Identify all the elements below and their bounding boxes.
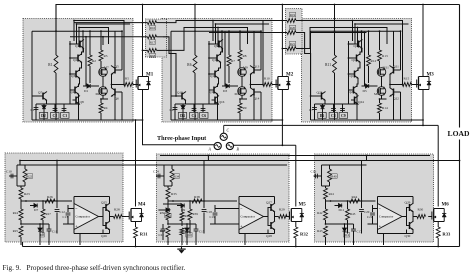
wire: [193, 104, 195, 112]
wire: [158, 209, 166, 211]
signal bus wire dropping to gate node: [353, 21, 403, 85]
collector rail wire: [195, 30, 261, 32]
gate resistor R10: [263, 83, 272, 87]
phase-B tap junction: [282, 20, 284, 22]
svg-text:R32: R32: [300, 232, 309, 237]
junction: [366, 155, 368, 157]
junction: [348, 57, 350, 59]
wire: [379, 99, 381, 103]
wire: [219, 62, 221, 71]
wire: [167, 186, 169, 188]
svg-text:Q28: Q28: [266, 234, 272, 238]
svg-text:C14: C14: [153, 170, 159, 174]
comparator return wire: [239, 233, 275, 235]
wire: [379, 61, 381, 68]
junction: [208, 155, 210, 157]
wire: [56, 201, 58, 208]
wire: [36, 103, 44, 105]
wire: [181, 235, 183, 245]
wire: [70, 57, 75, 59]
svg-text:R14: R14: [382, 106, 388, 110]
wire: [209, 73, 212, 75]
resistor R14: [378, 103, 382, 113]
wire: [241, 76, 243, 87]
comparator U2: [239, 204, 264, 230]
junction: [39, 223, 41, 225]
transistor Q19: [351, 70, 359, 79]
svg-text:R22: R22: [27, 174, 33, 178]
svg-text:R31: R31: [140, 232, 149, 237]
junction: [282, 119, 284, 121]
ground: [177, 247, 185, 254]
capacitor C3: [62, 109, 67, 111]
svg-text:R44: R44: [352, 195, 358, 199]
svg-text:R24: R24: [13, 211, 19, 215]
junction: [334, 30, 336, 32]
resistor R42: [324, 209, 328, 220]
junction: [42, 200, 44, 202]
wire: [89, 31, 91, 55]
wire: [135, 222, 137, 228]
gate resistor R15: [403, 83, 412, 87]
wire: [267, 208, 269, 226]
wire: [82, 48, 84, 55]
driver block 1 (phase A) dashed box: [23, 19, 133, 123]
wire: [157, 36, 164, 38]
bus junction: [194, 4, 196, 6]
wire: [118, 91, 122, 93]
input RC network: [322, 165, 330, 186]
wire: [80, 62, 82, 71]
wire: [157, 49, 164, 51]
diode D11: [339, 204, 342, 208]
transistor Q12: [211, 86, 219, 95]
capacitor C4: [173, 108, 178, 110]
signal drop wire: [361, 31, 363, 52]
junction: [354, 23, 356, 25]
resistor R37: [166, 226, 170, 237]
wire: [437, 222, 439, 228]
junction: [20, 223, 22, 225]
wire: [32, 30, 56, 32]
wire: [102, 95, 104, 99]
wire: [162, 231, 164, 240]
resistor R32: [294, 227, 298, 238]
junction: [208, 73, 210, 75]
svg-text:M4: M4: [138, 203, 146, 208]
label D6: [318, 113, 326, 119]
svg-text:D4: D4: [180, 114, 185, 118]
signal drop wire: [217, 28, 219, 48]
wire: [402, 216, 407, 218]
wire: [19, 161, 21, 166]
wire: [100, 61, 102, 68]
wire: [185, 100, 187, 104]
junction: [217, 27, 219, 29]
comparator block 3 dashed box: [315, 154, 434, 242]
wire: [343, 103, 358, 105]
wire: [333, 104, 335, 112]
power MOSFET M6: [428, 209, 446, 222]
svg-text:C12: C12: [60, 210, 66, 214]
wire: [342, 104, 344, 112]
wire: [102, 37, 104, 45]
tap wire to diode row: [224, 33, 226, 87]
svg-text:C15: C15: [199, 230, 205, 234]
wire: [372, 205, 374, 212]
wire: [189, 201, 191, 209]
wire: [135, 238, 137, 247]
wire: [381, 95, 383, 99]
wire: [325, 186, 327, 188]
wire: [70, 43, 77, 45]
diode D12: [343, 228, 347, 231]
transistor Q7: [40, 92, 48, 101]
capacitor C10: [11, 174, 13, 179]
svg-text:D2: D2: [41, 114, 46, 118]
wire: [63, 104, 65, 112]
transistor Q16: [212, 96, 220, 105]
junction: [69, 57, 71, 59]
junction: [172, 200, 174, 202]
wire: [322, 104, 324, 120]
output wire: [390, 74, 403, 85]
wire: [377, 197, 379, 204]
wire: [412, 197, 414, 204]
wire: [174, 104, 176, 120]
mosfet M9: [238, 68, 247, 77]
negative output rail wire: [23, 242, 460, 247]
junction: [361, 30, 363, 32]
svg-text:Comparator: Comparator: [379, 215, 393, 219]
wire: [101, 98, 108, 100]
output node wire: [110, 212, 114, 217]
wire: [326, 200, 376, 202]
gate resistor R30: [417, 215, 426, 219]
signal drop wire: [212, 21, 214, 42]
signal bus wire dropping to gate node: [213, 21, 263, 85]
junction: [73, 20, 75, 22]
svg-text:R7: R7: [231, 59, 235, 63]
wire: [217, 94, 219, 120]
wire: [330, 164, 367, 166]
transistor Q22: [390, 88, 398, 97]
comparator supply wire: [239, 196, 275, 198]
branch to low-side M4: [135, 120, 137, 207]
wire: [25, 164, 62, 166]
label R20: [289, 25, 295, 30]
svg-text:R23: R23: [24, 192, 30, 196]
wire: [63, 223, 74, 225]
resistor R34: [170, 169, 174, 182]
label R16: [149, 26, 155, 31]
junction: [212, 20, 214, 22]
svg-text:C20: C20: [364, 210, 370, 214]
output node wire: [275, 212, 279, 217]
svg-text:R39: R39: [193, 212, 199, 216]
resistor R36: [166, 209, 170, 220]
wire: [20, 199, 22, 201]
wire: [100, 31, 102, 50]
output node wire: [413, 212, 417, 217]
signal bus wire: [355, 23, 409, 25]
transistor Q8: [73, 96, 81, 105]
wire: [377, 230, 379, 234]
bus junction: [422, 4, 424, 6]
supply drop wire: [361, 161, 363, 202]
rail junction: [295, 246, 297, 248]
transistor Q1: [77, 40, 85, 49]
junction: [56, 200, 58, 202]
junction: [25, 200, 27, 202]
wire: [241, 95, 243, 99]
wire: [389, 85, 391, 89]
junction: [55, 30, 57, 32]
label R19: [289, 12, 295, 16]
resistor R46: [180, 212, 184, 221]
svg-text:C17: C17: [357, 230, 363, 234]
wire: [143, 36, 148, 38]
signal wire to block 1: [74, 22, 143, 24]
label D4: [178, 113, 186, 119]
label C3: [61, 113, 69, 119]
wire: [171, 30, 195, 32]
wire: [368, 66, 370, 83]
svg-text:M9: M9: [243, 66, 248, 70]
wire: [214, 205, 216, 212]
AC source phase A: [214, 142, 221, 149]
wire: [42, 201, 44, 209]
junction: [203, 200, 205, 202]
wire: [238, 230, 240, 234]
diode D10: [185, 228, 189, 231]
positive output bus wire: [56, 5, 460, 32]
wire: [325, 237, 327, 245]
svg-text:R38: R38: [194, 195, 200, 199]
resistor R3: [99, 50, 103, 61]
transistor Q25: [103, 203, 111, 212]
wire: [379, 31, 381, 50]
gate resistor R29: [279, 215, 288, 219]
bottom signal bus wire: [20, 160, 460, 162]
junction: [76, 23, 78, 25]
wire: [21, 200, 72, 202]
wire: [383, 234, 385, 246]
wire: [214, 216, 216, 224]
svg-text:C9: C9: [341, 114, 346, 118]
capacitor C15: [194, 229, 199, 231]
capacitor C8: [331, 109, 336, 111]
signal drop wire: [82, 31, 84, 52]
wire: [326, 223, 354, 225]
signal drop wire: [352, 21, 354, 42]
wire: [121, 92, 123, 120]
junction: [379, 98, 381, 100]
gate wire M3: [412, 84, 419, 86]
svg-text:Q26: Q26: [101, 234, 107, 238]
wire: [175, 103, 183, 105]
wire: [325, 220, 327, 224]
wire: [209, 43, 216, 45]
feed wire from top bus into block 2: [194, 5, 196, 56]
wire: [209, 89, 211, 91]
junction: [121, 30, 123, 32]
wire: [70, 89, 72, 91]
wire: [194, 73, 196, 120]
junction: [239, 32, 241, 34]
wire: [20, 237, 22, 245]
svg-text:C5: C5: [191, 114, 196, 118]
wire: [368, 31, 370, 55]
wire: [379, 113, 381, 120]
wire: [118, 69, 122, 71]
wire: [114, 95, 116, 120]
wire: [186, 231, 188, 245]
wire: [209, 57, 214, 59]
wire: [437, 238, 439, 247]
wire: [186, 224, 188, 228]
svg-text:Fig. 9. Proposed three-phase: Fig. 9. Proposed three-phase self-driven…: [3, 264, 186, 272]
svg-text:Q2: Q2: [73, 58, 77, 62]
wire: [143, 22, 148, 24]
wire: [222, 85, 226, 87]
label R21: [289, 41, 295, 46]
resistor R43: [324, 226, 328, 237]
diode D2: [42, 106, 46, 109]
diode D3: [226, 84, 229, 88]
svg-text:C7: C7: [309, 108, 313, 112]
wire: [311, 95, 319, 97]
mosfet M8: [99, 87, 108, 96]
wire: [46, 100, 48, 104]
wire: [143, 49, 148, 51]
junction: [85, 36, 87, 38]
svg-text:Q1: Q1: [75, 44, 79, 48]
wire: [344, 224, 346, 228]
gate resistor R5: [124, 83, 133, 87]
wire: [195, 224, 197, 229]
resistor R19: [287, 19, 296, 23]
wire: [400, 92, 402, 120]
wire: [349, 43, 356, 45]
label R22: [26, 174, 32, 179]
wire: [111, 85, 113, 89]
wire: [253, 95, 255, 120]
comparator supply wire: [74, 196, 110, 198]
wire: [48, 231, 50, 245]
wire: [83, 85, 87, 87]
svg-text:R47: R47: [185, 230, 191, 234]
resistor R21: [287, 47, 296, 51]
label C8: [329, 113, 337, 119]
output wire: [251, 74, 264, 85]
junction: [344, 223, 346, 225]
svg-text:Q18: Q18: [352, 58, 358, 62]
wire: [218, 78, 219, 87]
svg-text:C16: C16: [311, 170, 317, 174]
capacitor C11: [47, 229, 52, 231]
svg-text:R21: R21: [290, 42, 296, 46]
wire: [349, 73, 352, 75]
input RC network: [17, 165, 25, 186]
svg-text:R13: R13: [382, 54, 388, 58]
label R40: [331, 174, 337, 179]
wire: [115, 119, 143, 121]
label D8: [40, 233, 45, 238]
wire: [202, 104, 204, 112]
gate wire M2: [272, 84, 278, 86]
wire: [239, 33, 241, 42]
junction: [215, 23, 217, 25]
wire: [406, 230, 408, 234]
junction: [239, 30, 241, 32]
left rail wire: [170, 31, 172, 120]
svg-text:R17: R17: [150, 40, 156, 44]
rail junction: [135, 246, 137, 248]
transistor Q4: [72, 86, 80, 95]
svg-text:M3: M3: [427, 73, 435, 78]
svg-text:D3: D3: [223, 89, 227, 93]
junction: [228, 30, 230, 32]
svg-text:C4: C4: [170, 108, 174, 112]
wire: [100, 113, 102, 120]
transistor Q6: [111, 88, 119, 97]
resistor R22: [23, 169, 27, 182]
transistor Q15: [179, 92, 187, 101]
svg-text:R29: R29: [279, 208, 285, 212]
wire: [393, 31, 395, 66]
transistor Q3: [73, 70, 81, 79]
svg-text:R6: R6: [187, 63, 191, 67]
wire: [282, 32, 287, 34]
wire: [260, 31, 262, 70]
diode D9: [181, 204, 184, 208]
transistor Q20: [350, 86, 358, 95]
label C5: [190, 113, 198, 119]
wire: [324, 100, 326, 104]
junction: [250, 84, 252, 86]
junction: [102, 36, 104, 38]
wire: [314, 104, 316, 120]
capacitor C9: [340, 109, 345, 111]
resistor R41: [324, 188, 328, 199]
gate resistor R28: [114, 215, 123, 219]
svg-text:R45: R45: [350, 212, 356, 216]
capacitor C16: [316, 174, 318, 179]
wire: [79, 234, 81, 246]
junction: [260, 30, 262, 32]
resistor R26: [45, 199, 55, 203]
wire: [366, 156, 368, 161]
wire: [357, 78, 358, 87]
wire: [171, 165, 173, 169]
svg-text:Q5: Q5: [115, 65, 119, 69]
wire: [24, 165, 26, 169]
phase A node wire: [143, 90, 215, 145]
transistor Q17: [355, 40, 363, 49]
svg-text:M12: M12: [374, 92, 381, 96]
svg-text:R25: R25: [13, 229, 19, 233]
wire: [157, 22, 164, 24]
AC source phase B: [226, 142, 233, 149]
wire: [361, 201, 363, 208]
svg-text:LOAD: LOAD: [448, 129, 470, 138]
wire: [9, 175, 17, 177]
signal wire to block 3: [296, 20, 353, 22]
coupling resistor box B: [286, 9, 303, 55]
wire: [323, 103, 343, 105]
svg-text:Q3: Q3: [71, 74, 75, 78]
